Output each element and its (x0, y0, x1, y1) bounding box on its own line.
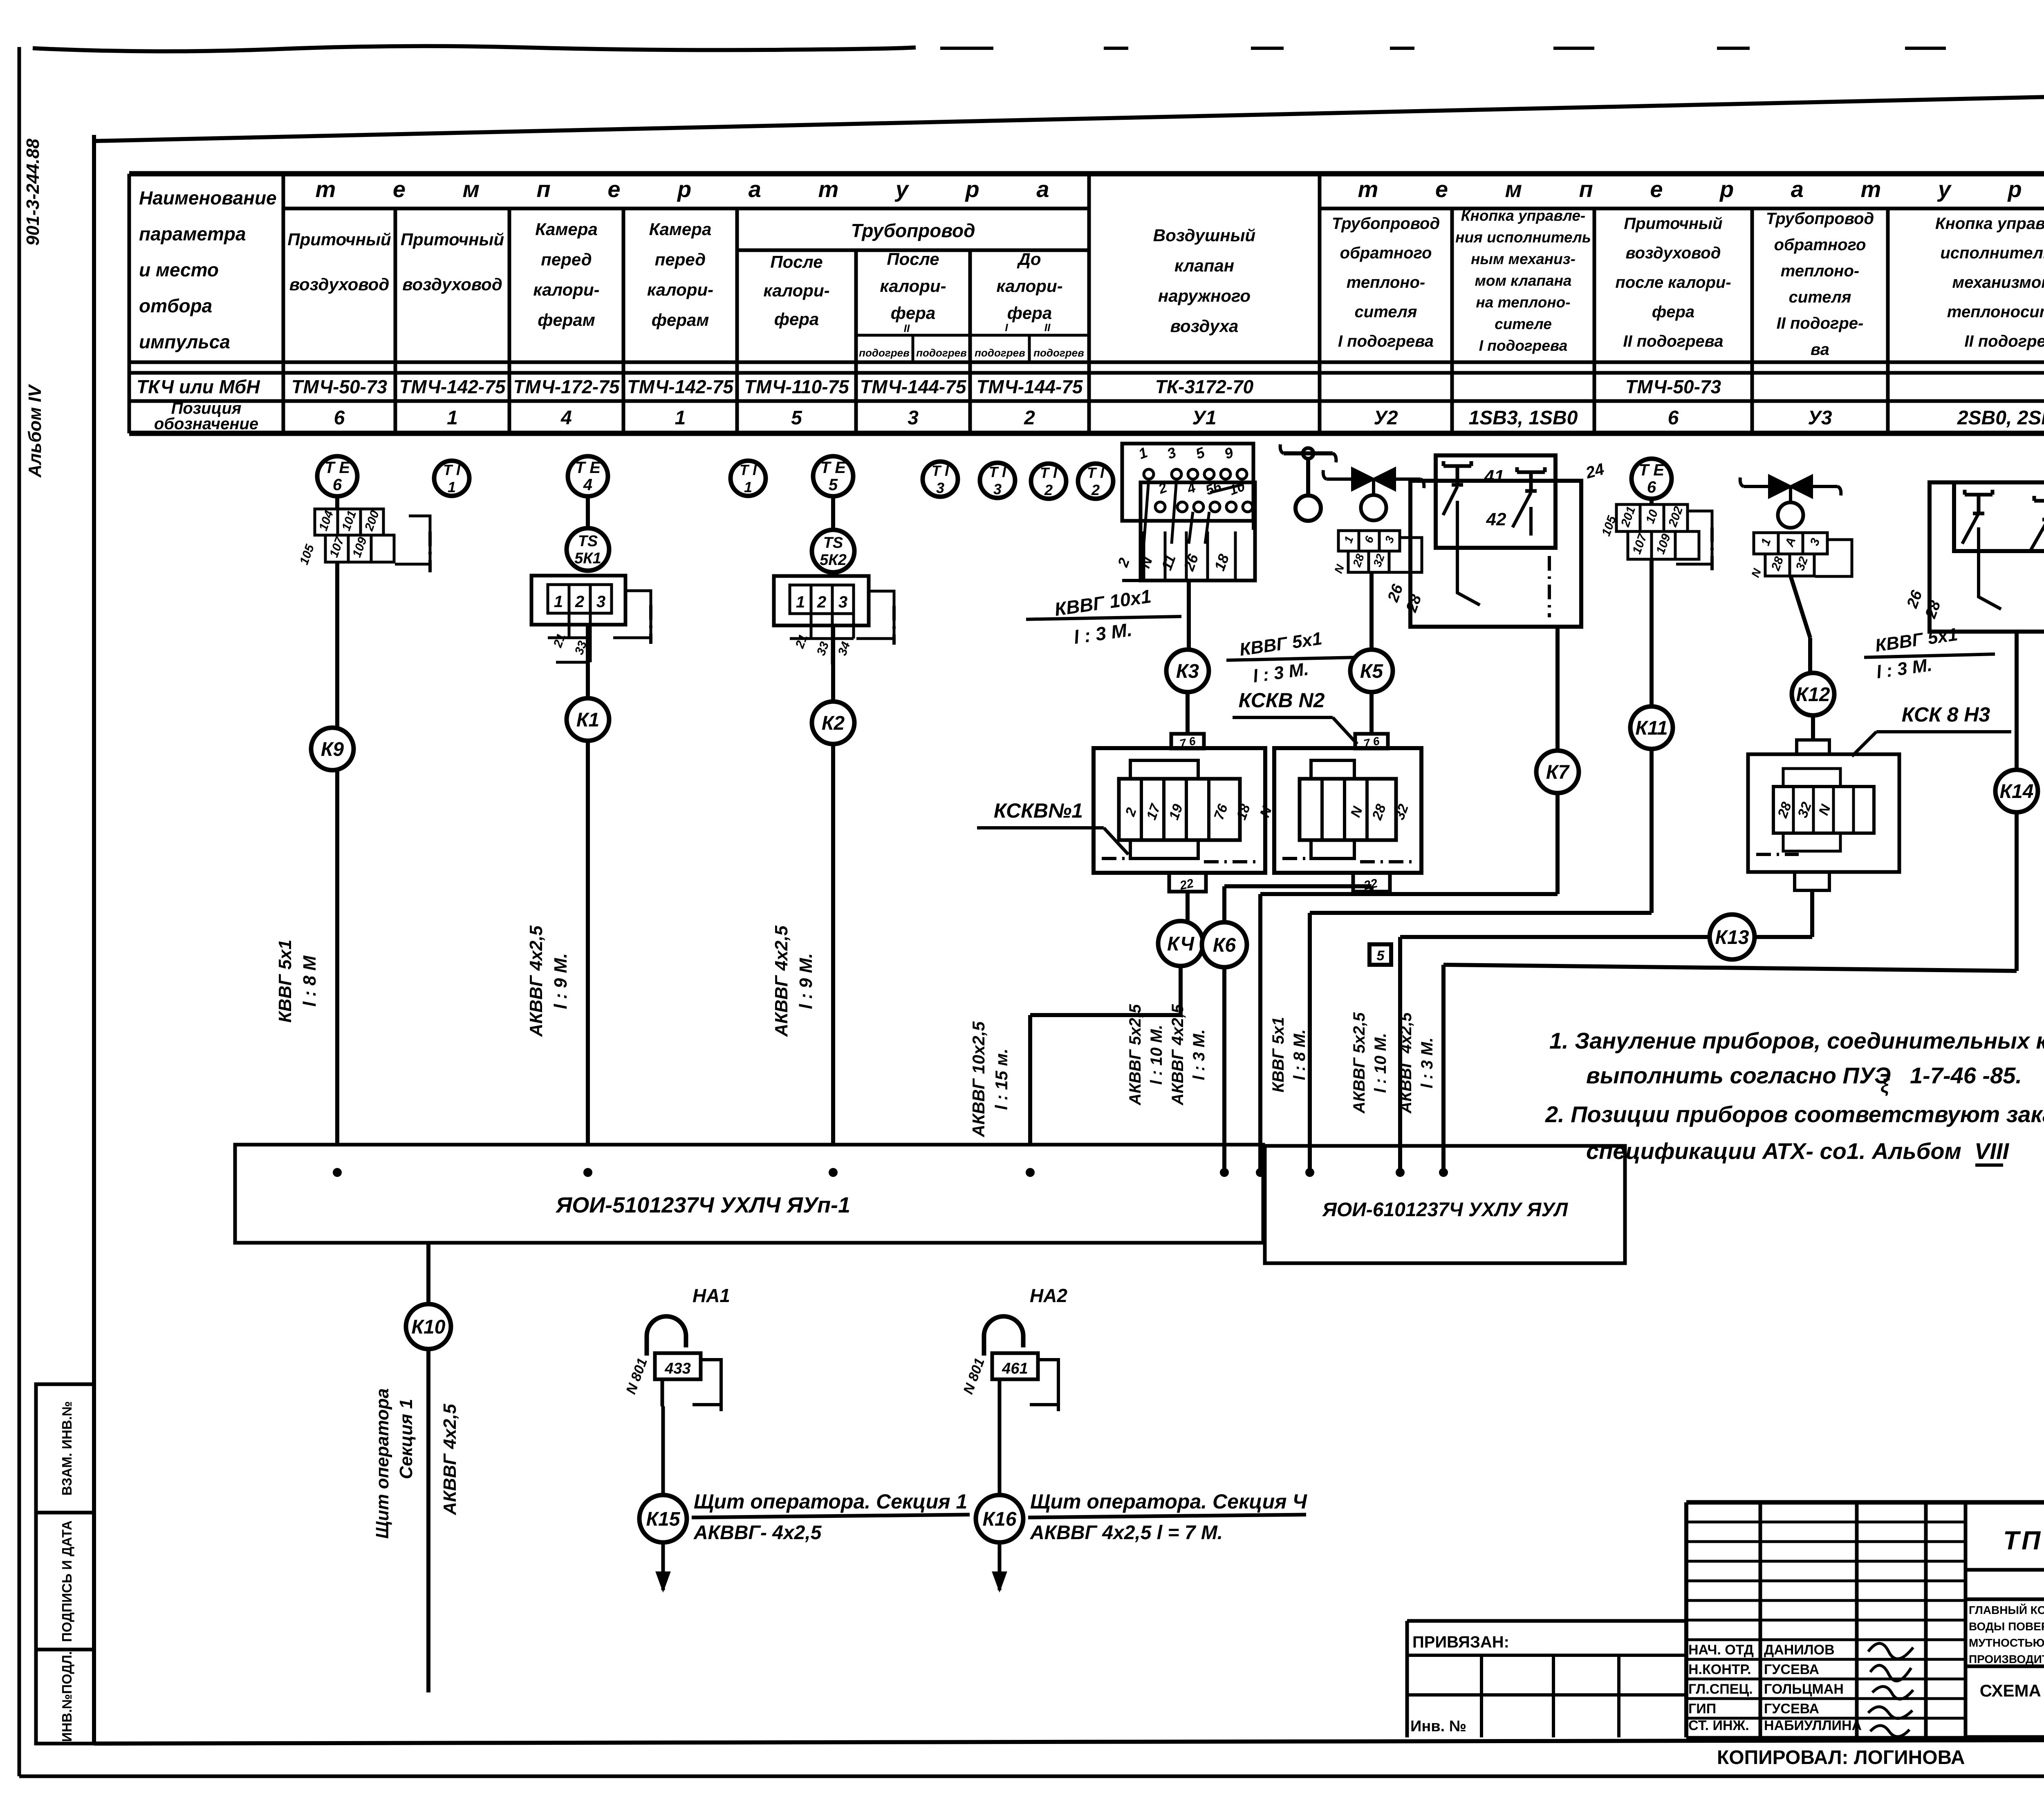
svg-text:2: 2 (575, 593, 584, 611)
svg-text:После: После (887, 249, 939, 269)
svg-text:ГЛАВНЫЙ КОРПУС ДЛЯ СТАНЦИИ ОЧИ: ГЛАВНЫЙ КОРПУС ДЛЯ СТАНЦИИ ОЧИСТКИ (1969, 1603, 2044, 1616)
svg-text:461: 461 (1002, 1360, 1028, 1377)
svg-text:ЯОИ-6101237Ч УХЛУ ЯУЛ: ЯОИ-6101237Ч УХЛУ ЯУЛ (1322, 1199, 1568, 1221)
svg-text:воздуха: воздуха (1170, 316, 1239, 336)
svg-text:воздуховод: воздуховод (402, 275, 502, 294)
svg-text:К2: К2 (822, 713, 845, 734)
svg-text:Щит оператора: Щит оператора (372, 1388, 392, 1539)
svg-text:К14: К14 (2000, 781, 2034, 802)
svg-text:ГИП: ГИП (1688, 1701, 1716, 1717)
svg-text:ГУСЕВА: ГУСЕВА (1764, 1662, 1819, 1677)
svg-text:калори-: калори- (880, 276, 946, 296)
svg-text:теплоносителе: теплоносителе (1947, 303, 2044, 321)
svg-text:I подогрева: I подогрева (1338, 332, 1434, 350)
svg-text:после калори-: после калори- (1615, 273, 1731, 291)
svg-text:НА1: НА1 (693, 1285, 730, 1306)
svg-text:К6: К6 (1213, 935, 1236, 956)
svg-text:К13: К13 (1715, 927, 1749, 948)
svg-text:I подогрева: I подогрева (1479, 337, 1568, 354)
svg-text:обратного: обратного (1774, 236, 1866, 254)
svg-text:6: 6 (1668, 407, 1679, 429)
svg-text:6: 6 (333, 476, 342, 494)
svg-text:калори-: калори- (996, 276, 1062, 296)
svg-text:1: 1 (796, 593, 805, 611)
svg-text:ТМЧ-142-75: ТМЧ-142-75 (627, 376, 734, 397)
svg-text:Секция 1: Секция 1 (396, 1399, 416, 1479)
svg-text:l : 9 М.: l : 9 М. (551, 953, 571, 1009)
svg-text:Альбом IV: Альбом IV (25, 383, 45, 477)
svg-text:АКВВГ 10х2,5: АКВВГ 10х2,5 (969, 1021, 988, 1137)
svg-text:1: 1 (447, 407, 458, 429)
svg-text:СТ. ИНЖ.: СТ. ИНЖ. (1688, 1718, 1749, 1733)
svg-text:и место: и место (139, 259, 219, 280)
svg-text:2: 2 (1091, 482, 1100, 498)
svg-text:ЯОИ-5101237Ч УХЛЧ ЯУп-1: ЯОИ-5101237Ч УХЛЧ ЯУп-1 (555, 1193, 850, 1217)
svg-text:Кнопка управления: Кнопка управления (1935, 215, 2044, 233)
svg-text:К15: К15 (646, 1508, 681, 1530)
svg-text:на теплоно-: на теплоно- (1476, 294, 1570, 311)
svg-text:АКВВГ 4х2,5: АКВВГ 4х2,5 (771, 926, 791, 1037)
svg-text:Т I: Т I (1087, 464, 1105, 481)
svg-text:1. Зануление приборов, соедини: 1. Зануление приборов, соединительных ко… (1549, 1028, 2044, 1053)
svg-text:фера: фера (1007, 303, 1052, 323)
svg-text:АКВВГ 4х2,5: АКВВГ 4х2,5 (440, 1404, 460, 1515)
svg-text:3: 3 (908, 407, 919, 429)
svg-text:3: 3 (838, 593, 847, 611)
svg-text:КОПИРОВАЛ: ЛОГИНОВА: КОПИРОВАЛ: ЛОГИНОВА (1717, 1747, 1965, 1768)
svg-text:1SB3, 1SB0: 1SB3, 1SB0 (1469, 407, 1578, 429)
svg-text:калори-: калори- (533, 280, 599, 299)
svg-text:5К1: 5К1 (574, 550, 601, 567)
svg-text:Т I: Т I (932, 462, 949, 479)
svg-text:исполнительным: исполнительным (1940, 244, 2044, 262)
svg-text:фера: фера (774, 309, 819, 329)
svg-text:мом клапана: мом клапана (1475, 272, 1572, 289)
svg-text:Т Е: Т Е (820, 459, 847, 477)
svg-text:3: 3 (936, 480, 944, 496)
svg-text:6: 6 (1647, 478, 1656, 496)
svg-text:4: 4 (583, 476, 592, 494)
svg-text:ПРОИЗВОДИТЕЛЬНОСТЬЮ 125ТЫС.М³/: ПРОИЗВОДИТЕЛЬНОСТЬЮ 125ТЫС.М³/СУТ. (1969, 1653, 2044, 1665)
svg-text:42: 42 (1486, 509, 1506, 529)
svg-text:АКВВГ 4х2,5: АКВВГ 4х2,5 (526, 926, 546, 1037)
svg-text:КСК 8 Н3: КСК 8 Н3 (1902, 703, 1990, 726)
svg-text:ГУСЕВА: ГУСЕВА (1764, 1701, 1819, 1717)
svg-text:ТМЧ-142-75: ТМЧ-142-75 (399, 376, 506, 397)
svg-text:сителя: сителя (1789, 288, 1851, 306)
svg-text:3: 3 (993, 481, 1002, 498)
svg-text:АКВВГ- 4х2,5: АКВВГ- 4х2,5 (693, 1522, 822, 1544)
svg-text:фера: фера (891, 303, 936, 323)
svg-text:ным механиз-: ным механиз- (1471, 251, 1576, 267)
svg-text:Приточный: Приточный (287, 230, 391, 249)
svg-text:ИНВ.№ПОДЛ.: ИНВ.№ПОДЛ. (59, 1651, 74, 1742)
svg-text:ВЗАМ. ИНВ.№: ВЗАМ. ИНВ.№ (59, 1401, 74, 1495)
svg-text:l : 9 М.: l : 9 М. (796, 953, 816, 1009)
svg-text:У2: У2 (1374, 407, 1398, 429)
svg-text:Камера: Камера (535, 220, 598, 239)
svg-text:l : 10 М.: l : 10 М. (1148, 1025, 1165, 1085)
svg-text:калори-: калори- (763, 281, 829, 300)
svg-text:перед: перед (541, 250, 592, 269)
svg-text:ТМЧ-144-75: ТМЧ-144-75 (860, 376, 967, 397)
svg-text:Щит оператора. Секция Ч: Щит оператора. Секция Ч (1030, 1490, 1307, 1513)
svg-text:НАБИУЛЛИНА: НАБИУЛЛИНА (1764, 1718, 1862, 1733)
svg-text:КСКВ N2: КСКВ N2 (1239, 689, 1325, 712)
svg-text:ва: ва (1811, 341, 1829, 359)
svg-text:выполнить согласно ПУЭ: выполнить согласно ПУЭ (1586, 1062, 1891, 1088)
svg-text:ТМЧ-172-75: ТМЧ-172-75 (513, 376, 620, 397)
svg-text:подогрев: подогрев (975, 347, 1025, 359)
svg-text:т е м п е р а т у р а: т е м п е р а т у р а (316, 176, 1075, 202)
svg-text:У3: У3 (1808, 407, 1832, 429)
svg-text:3: 3 (596, 593, 605, 611)
svg-text:Приточный: Приточный (401, 230, 504, 249)
svg-text:АКВВГ 5х2,5: АКВВГ 5х2,5 (1350, 1012, 1368, 1114)
svg-text:II подогрева: II подогрева (1623, 332, 1723, 350)
svg-text:1: 1 (744, 479, 752, 495)
svg-text:К1: К1 (576, 709, 599, 731)
svg-text:КВВГ 5х1: КВВГ 5х1 (275, 939, 295, 1022)
svg-text:Кнопка управле-: Кнопка управле- (1461, 207, 1586, 224)
svg-text:Трубопровод: Трубопровод (851, 220, 975, 241)
svg-text:т е м п е р а т у р а: т е м п е р а т у р а (1358, 176, 2044, 202)
svg-text:II подогре-: II подогре- (1777, 314, 1864, 332)
svg-text:НА2: НА2 (1030, 1285, 1067, 1306)
svg-text:Камера: Камера (649, 220, 712, 239)
svg-text:Т Е: Т Е (325, 459, 351, 477)
svg-text:Т I: Т I (740, 462, 757, 478)
svg-text:импульса: импульса (139, 331, 230, 352)
svg-text:1: 1 (675, 407, 686, 429)
svg-text:II: II (904, 322, 910, 334)
svg-text:l : 15 м.: l : 15 м. (992, 1049, 1011, 1110)
svg-text:4: 4 (560, 407, 572, 429)
svg-text:433: 433 (664, 1360, 690, 1377)
svg-text:5: 5 (829, 476, 838, 494)
svg-text:ТК-3172-70: ТК-3172-70 (1155, 376, 1254, 397)
svg-text:l : 8 М: l : 8 М (300, 955, 320, 1006)
svg-text:воздуховод: воздуховод (1626, 244, 1721, 262)
svg-text:2: 2 (817, 593, 826, 611)
svg-text:К3: К3 (1176, 661, 1199, 682)
svg-text:калори-: калори- (647, 280, 713, 299)
svg-text:ТМЧ-144-75: ТМЧ-144-75 (977, 376, 1083, 397)
svg-text:отбора: отбора (139, 295, 212, 316)
svg-text:1-7-46 -85.: 1-7-46 -85. (1910, 1062, 2022, 1088)
svg-text:После: После (770, 252, 823, 271)
svg-text:ТS: ТS (578, 533, 598, 550)
svg-text:механизмом на: механизмом на (1952, 273, 2044, 291)
svg-text:подогрев: подогрев (916, 347, 967, 359)
svg-text:1: 1 (448, 479, 456, 495)
svg-text:Т Е: Т Е (1639, 461, 1665, 479)
svg-text:ферам: ферам (652, 310, 709, 329)
svg-text:l : 3 М.: l : 3 М. (1190, 1029, 1208, 1080)
svg-text:ВОДЫ ПОВЕРХНОСТНЫХ ИСТОЧНИКОВ: ВОДЫ ПОВЕРХНОСТНЫХ ИСТОЧНИКОВ (1969, 1620, 2044, 1633)
svg-text:КВВГ 5х1: КВВГ 5х1 (1269, 1017, 1287, 1093)
svg-text:До: До (1017, 249, 1041, 269)
svg-text:К9: К9 (321, 739, 344, 760)
svg-text:2: 2 (1044, 482, 1053, 498)
svg-text:ТS: ТS (823, 534, 843, 551)
svg-text:1: 1 (554, 593, 563, 611)
svg-text:5: 5 (1377, 948, 1385, 964)
svg-text:фера: фера (1652, 303, 1694, 321)
svg-text:ТМЧ-50-73: ТМЧ-50-73 (1625, 376, 1721, 397)
svg-text:клапан: клапан (1174, 256, 1234, 275)
svg-text:5К2: 5К2 (820, 551, 847, 569)
svg-text:ДАНИЛОВ: ДАНИЛОВ (1764, 1642, 1835, 1658)
svg-text:наружного: наружного (1158, 286, 1251, 305)
svg-text:ферам: ферам (538, 310, 595, 329)
svg-text:901-3-244.88: 901-3-244.88 (23, 139, 43, 246)
svg-text:К16: К16 (983, 1508, 1017, 1530)
svg-text:подогрев: подогрев (859, 347, 910, 359)
svg-text:МУТНОСТЬЮ ДО 1500 МГ/Л: МУТНОСТЬЮ ДО 1500 МГ/Л (1969, 1636, 2044, 1649)
svg-text:41: 41 (1484, 466, 1504, 486)
svg-text:I: I (1005, 321, 1008, 334)
svg-text:2SB0, 2SB3.: 2SB0, 2SB3. (1957, 407, 2044, 429)
svg-text:Т I: Т I (1040, 464, 1058, 481)
svg-text:К7: К7 (1546, 762, 1570, 783)
svg-text:сителя: сителя (1355, 303, 1417, 321)
svg-text:Т Е: Т Е (575, 459, 601, 477)
svg-text:АКВВГ 4х2,5 l = 7 М.: АКВВГ 4х2,5 l = 7 М. (1030, 1522, 1223, 1544)
svg-text:Инв. №: Инв. № (1410, 1718, 1466, 1735)
svg-text:теплоно-: теплоно- (1781, 262, 1859, 280)
svg-text:ГЛ.СПЕЦ.: ГЛ.СПЕЦ. (1688, 1681, 1753, 1697)
svg-text:Трубопровод: Трубопровод (1332, 215, 1440, 233)
svg-text:l : 8 М.: l : 8 М. (1291, 1029, 1309, 1080)
svg-text:5: 5 (791, 407, 802, 429)
svg-text:сителе: сителе (1495, 316, 1552, 332)
svg-text:Трубопровод: Трубопровод (1766, 210, 1874, 228)
svg-text:ТМЧ-50-73: ТМЧ-50-73 (291, 376, 388, 397)
svg-text:Воздушный: Воздушный (1153, 226, 1255, 245)
svg-text:ТП 901-3-244. 88: ТП 901-3-244. 88 (2003, 1526, 2044, 1555)
svg-text:У1: У1 (1192, 407, 1216, 429)
svg-text:22: 22 (1178, 876, 1195, 892)
svg-text:АКВВГ 4х2,5: АКВВГ 4х2,5 (1397, 1012, 1415, 1114)
svg-text:обратного: обратного (1340, 244, 1432, 262)
svg-text:обозначение: обозначение (154, 415, 258, 433)
svg-text:6: 6 (334, 407, 345, 429)
svg-text:ния исполнитель: ния исполнитель (1455, 229, 1591, 246)
svg-text:К10: К10 (412, 1316, 446, 1338)
svg-text:СХЕМА ВНЕШНИХ ПРОВОДОК.: СХЕМА ВНЕШНИХ ПРОВОДОК. (1980, 1681, 2044, 1700)
svg-text:параметра: параметра (139, 223, 246, 244)
svg-text:КСКВ№1: КСКВ№1 (994, 799, 1083, 822)
svg-text:спецификации АТХ- со1. Альбо: спецификации АТХ- со1. Альбом (1586, 1138, 1961, 1164)
svg-text:ТМЧ-110-75: ТМЧ-110-75 (744, 376, 849, 397)
svg-text:Щит оператора. Секция 1: Щит оператора. Секция 1 (694, 1490, 967, 1513)
svg-text:ПОДПИСЬ И ДАТА: ПОДПИСЬ И ДАТА (59, 1520, 74, 1642)
svg-text:К12: К12 (1796, 684, 1830, 706)
svg-text:ПРИВЯЗАН:: ПРИВЯЗАН: (1412, 1633, 1509, 1651)
svg-text:Наименование: Наименование (139, 187, 277, 208)
svg-text:КЧ: КЧ (1167, 933, 1195, 955)
svg-text:ТКЧ или МбН: ТКЧ или МбН (137, 376, 260, 397)
svg-text:НАЧ. ОТД: НАЧ. ОТД (1688, 1642, 1754, 1658)
svg-text:АКВВГ 5х2,5: АКВВГ 5х2,5 (1126, 1004, 1144, 1106)
svg-text:l : 3 М.: l : 3 М. (1418, 1038, 1436, 1088)
svg-text:VIII: VIII (1975, 1138, 2009, 1164)
svg-text:воздуховод: воздуховод (289, 275, 390, 294)
svg-text:АКВВГ 4х2,5: АКВВГ 4х2,5 (1169, 1004, 1187, 1106)
svg-text:ГОЛЬЦМАН: ГОЛЬЦМАН (1764, 1681, 1844, 1697)
svg-text:К5: К5 (1360, 661, 1384, 682)
svg-text:Н.КОНТР.: Н.КОНТР. (1688, 1662, 1751, 1677)
svg-text:2: 2 (1024, 407, 1035, 429)
svg-text:II подогрева: II подогрева (1964, 332, 2044, 350)
svg-text:Т I: Т I (443, 462, 461, 478)
svg-text:2. Позиции приборов соответств: 2. Позиции приборов соответствуют заказн… (1545, 1101, 2044, 1127)
svg-text:перед: перед (655, 250, 706, 269)
svg-text:подогрев: подогрев (1033, 347, 1084, 359)
svg-text:теплоно-: теплоно- (1347, 273, 1425, 291)
svg-text:II: II (1044, 321, 1051, 334)
svg-text:К11: К11 (1635, 717, 1667, 739)
svg-text:Приточный: Приточный (1624, 215, 1722, 233)
svg-text:Т I: Т I (989, 464, 1006, 480)
svg-text:l : 10 М.: l : 10 М. (1372, 1033, 1390, 1093)
svg-text:ξ: ξ (1880, 1075, 1890, 1096)
